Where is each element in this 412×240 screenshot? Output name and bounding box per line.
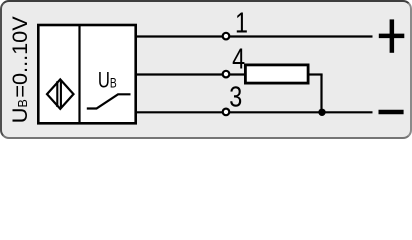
minus terminal — [379, 110, 404, 114]
svg-text:1: 1 — [235, 6, 248, 39]
svg-text:4: 4 — [232, 42, 245, 75]
svg-text:UB=0...10V: UB=0...10V — [7, 16, 32, 123]
diamond inner bar left — [56, 81, 58, 107]
load resistor RL — [245, 65, 308, 83]
wire pin4 middle — [135, 73, 246, 75]
diamond inner bar right — [60, 81, 62, 107]
wire corner down — [320, 75, 322, 113]
terminal circle pin 3 — [223, 109, 230, 116]
terminal circle pin 1 — [223, 33, 230, 40]
plus terminal — [379, 19, 405, 52]
wire pin3 bottom — [135, 111, 373, 113]
wire resistor to corner — [308, 73, 323, 75]
sensor supply label UB=0...10V — [7, 16, 32, 123]
junction dot — [318, 109, 325, 116]
svg-text:3: 3 — [229, 80, 242, 113]
analog output ramp symbol — [87, 94, 131, 108]
sensor internal divider — [78, 25, 80, 123]
wire pin1 top — [135, 35, 373, 37]
proximity sensor diamond symbol — [47, 79, 74, 108]
sensor body outline — [38, 25, 135, 123]
terminal circle pin 4 — [223, 71, 230, 78]
analog output label UB — [98, 68, 117, 93]
